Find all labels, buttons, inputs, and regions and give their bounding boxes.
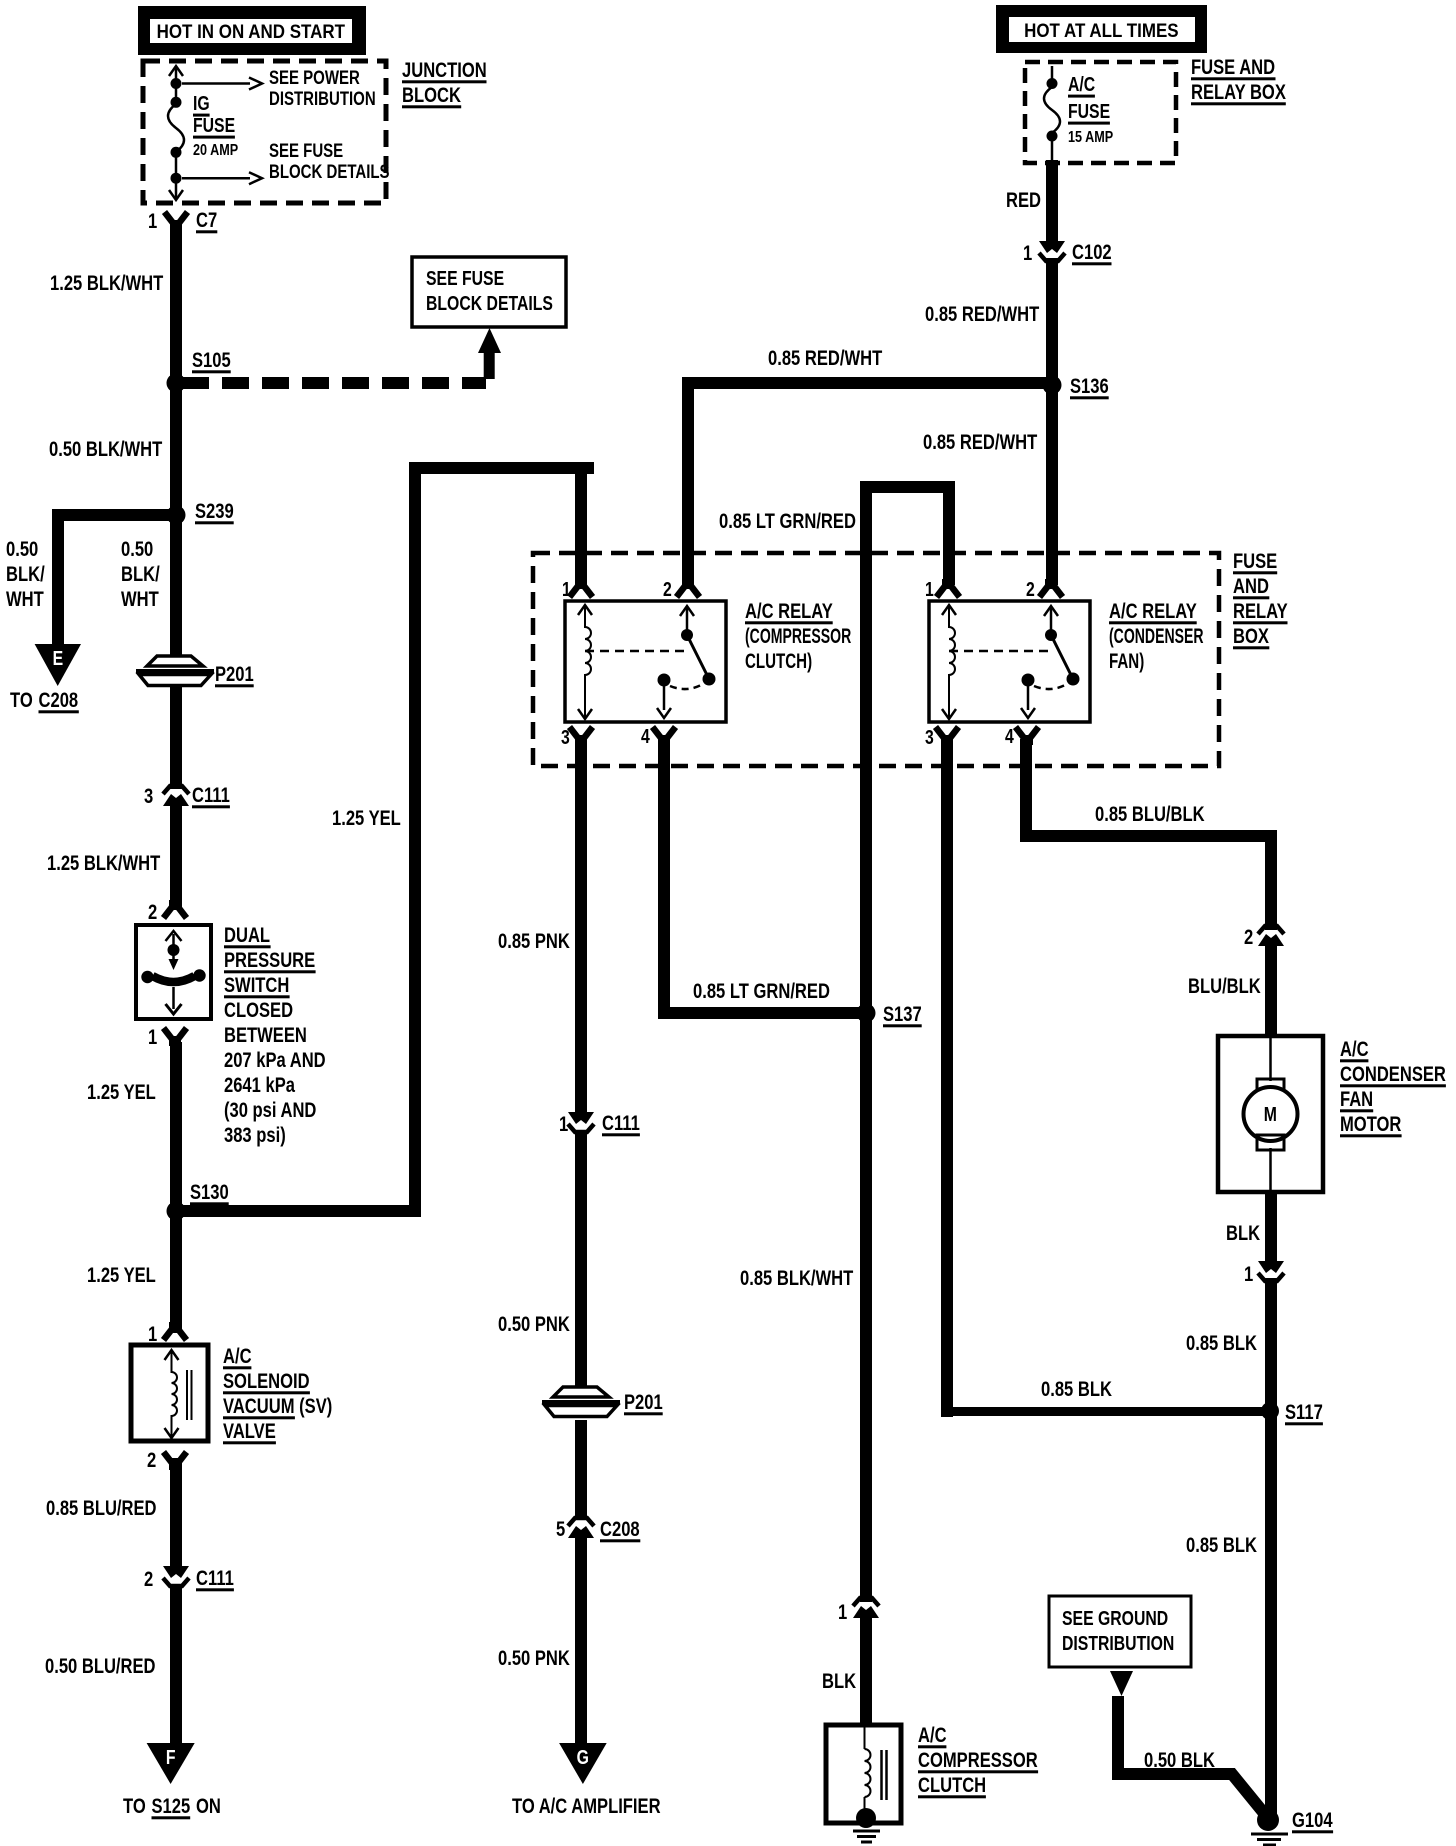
- label FUSE AND RELAY BOX right: [1233, 550, 1288, 649]
- svg-text:G: G: [577, 1746, 589, 1768]
- svg-text:BLK: BLK: [822, 1670, 856, 1693]
- pin 1 fork right relay: [937, 579, 960, 597]
- label C102: [1072, 241, 1112, 265]
- svg-text:S239: S239: [195, 500, 234, 523]
- svg-text:0.85 RED/WHT: 0.85 RED/WHT: [768, 347, 883, 370]
- svg-text:VACUUM (SV): VACUUM (SV): [223, 1395, 332, 1418]
- svg-text:2: 2: [663, 578, 672, 600]
- label 0.85 LT GRN/RED upper: [719, 510, 856, 533]
- arrow E to C208: [35, 644, 81, 686]
- label S105: [192, 349, 231, 373]
- svg-text:CLUTCH: CLUTCH: [918, 1774, 986, 1797]
- svg-text:SEE GROUND: SEE GROUND: [1062, 1607, 1168, 1629]
- label 0.85 BLU/RED: [46, 1497, 157, 1520]
- node junction dot 4: [171, 173, 182, 184]
- svg-text:S125: S125: [152, 1795, 191, 1818]
- label 1 at C111 middle: [559, 1113, 568, 1136]
- svg-text:1: 1: [562, 578, 571, 600]
- svg-text:PRESSURE: PRESSURE: [224, 949, 315, 972]
- ground symbol G104: [1251, 1834, 1288, 1845]
- svg-text:(30 psi AND: (30 psi AND: [224, 1099, 316, 1122]
- svg-text:C111: C111: [602, 1112, 640, 1135]
- junction block bus wire: [175, 66, 178, 200]
- label 0.50 BLU/RED: [45, 1655, 156, 1678]
- label C111 middle: [602, 1112, 640, 1136]
- wire dashed from S105: [182, 377, 486, 389]
- pin 2 fork of solenoid valve: [164, 1452, 187, 1470]
- label S137: [883, 1003, 922, 1027]
- motor M1 A/C condenser fan: [1218, 1036, 1323, 1192]
- node fuse dot bottom: [1047, 131, 1058, 142]
- label C111 lower: [196, 1567, 234, 1591]
- label S239: [195, 500, 234, 524]
- label 1.25 BLK/WHT lower: [47, 852, 161, 875]
- label C7: [196, 209, 217, 233]
- svg-text:1: 1: [148, 210, 157, 233]
- svg-text:DISTRIBUTION: DISTRIBUTION: [269, 88, 376, 109]
- label pins left relay: [561, 578, 672, 748]
- pin 1 fork left relay: [570, 579, 593, 597]
- label 0.85 BLK above S117: [1186, 1332, 1257, 1355]
- svg-text:(COMPRESSOR: (COMPRESSOR: [745, 624, 851, 647]
- svg-text:BLK/: BLK/: [6, 563, 45, 586]
- svg-text:0.85 LT GRN/RED: 0.85 LT GRN/RED: [719, 510, 856, 533]
- clutch coil: [865, 1727, 871, 1812]
- label 1.25 YEL lower: [87, 1264, 156, 1287]
- svg-text:WHT: WHT: [121, 588, 159, 611]
- svg-text:M: M: [1264, 1103, 1277, 1125]
- wire 0.50 PNK upper: [575, 1133, 587, 1388]
- label 1.25 YEL: [87, 1081, 156, 1104]
- svg-text:1: 1: [148, 1026, 157, 1049]
- arrow to SEE POWER DISTRIBUTION: [182, 78, 262, 90]
- A/C compressor clutch box: [826, 1725, 901, 1823]
- svg-text:DUAL: DUAL: [224, 924, 270, 947]
- grommet P201 middle: [542, 1387, 620, 1417]
- svg-text:BLOCK DETAILS: BLOCK DETAILS: [426, 292, 553, 314]
- svg-text:SEE FUSE: SEE FUSE: [269, 140, 343, 161]
- svg-text:COMPRESSOR: COMPRESSOR: [918, 1749, 1038, 1772]
- wire 0.85 LT GRN/RED vertical: [860, 481, 955, 1602]
- wire pin 4 left relay to S137: [658, 739, 872, 1019]
- wire 1.25 YEL vertical from S130: [176, 462, 421, 1217]
- svg-text:RED: RED: [1006, 189, 1041, 212]
- label 0.50 PNK: [498, 1313, 570, 1336]
- svg-text:BLK/: BLK/: [121, 563, 160, 586]
- label 0.85 PNK: [498, 930, 570, 953]
- label G104: [1292, 1809, 1333, 1833]
- junction block (dashed box): [143, 61, 386, 203]
- svg-text:0.50 PNK: 0.50 PNK: [498, 1313, 570, 1336]
- pin 2 fork of pressure switch: [164, 900, 187, 918]
- label SEE POWER DISTRIBUTION: [269, 67, 376, 109]
- label P201 middle: [624, 1391, 663, 1415]
- svg-text:E: E: [53, 647, 64, 669]
- connector C111 pin 2: [163, 1566, 189, 1586]
- label 5 at C208: [556, 1518, 565, 1541]
- svg-text:P201: P201: [624, 1391, 663, 1414]
- svg-text:F: F: [166, 1746, 176, 1768]
- label SEE FUSE BLOCK DETAILS: [269, 140, 390, 182]
- wire pin2 left relay to S136: [682, 377, 1058, 585]
- label 0.85 LT GRN/RED lower: [693, 980, 830, 1003]
- svg-text:(CONDENSER: (CONDENSER: [1109, 624, 1204, 647]
- svg-text:G104: G104: [1292, 1809, 1333, 1832]
- node junction dot 3: [171, 147, 182, 158]
- grommet P201 left: [136, 656, 214, 686]
- label IG FUSE: [193, 92, 235, 138]
- svg-text:S136: S136: [1070, 375, 1109, 398]
- wire 0.50 BLK: [1118, 1696, 1263, 1812]
- svg-text:S105: S105: [192, 349, 231, 372]
- label S130: [190, 1181, 229, 1205]
- label 0.85 BLU/BLK: [1095, 803, 1205, 826]
- pressure switch diaphragm: [141, 969, 205, 983]
- label TO S125 ON: [123, 1795, 221, 1819]
- label TO C208: [10, 689, 79, 713]
- svg-text:SOLENOID: SOLENOID: [223, 1370, 310, 1393]
- svg-text:1.25 YEL: 1.25 YEL: [87, 1264, 156, 1287]
- svg-text:4: 4: [641, 725, 650, 747]
- label A/C FUSE: [1068, 73, 1110, 124]
- svg-text:1.25 BLK/WHT: 1.25 BLK/WHT: [50, 272, 164, 295]
- svg-text:BLK: BLK: [1226, 1222, 1260, 1245]
- svg-text:3: 3: [144, 785, 153, 808]
- label 2 below solenoid valve: [147, 1449, 156, 1472]
- wire BLU/BLK: [1265, 941, 1277, 1036]
- A/C fuse box (dashed): [1025, 62, 1176, 163]
- pin 2 fork right relay: [1040, 579, 1063, 597]
- svg-text:A/C RELAY: A/C RELAY: [1109, 600, 1197, 623]
- svg-text:RELAY: RELAY: [1233, 600, 1288, 623]
- label 0.50 BLK: [1144, 1749, 1215, 1772]
- label 0.50 PNK lower: [498, 1647, 570, 1670]
- label RED: [1006, 189, 1041, 212]
- A/C fuse wire: [1051, 66, 1054, 163]
- wire RED: [1046, 160, 1058, 246]
- label 0.50 BLK/WHT: [49, 438, 163, 461]
- label 0.50 BLK/WHT right split: [121, 538, 160, 611]
- svg-text:FUSE: FUSE: [1068, 100, 1110, 122]
- label A/C RELAY COMPRESSOR CLUTCH: [745, 600, 851, 672]
- svg-text:WHT: WHT: [6, 588, 44, 611]
- label JUNCTION BLOCK: [402, 59, 487, 108]
- clutch core: [882, 1750, 887, 1800]
- box SEE GROUND DISTRIBUTION: [1049, 1596, 1191, 1667]
- svg-text:JUNCTION: JUNCTION: [402, 59, 487, 82]
- wire S239 branch left: [52, 509, 176, 646]
- svg-text:BLOCK: BLOCK: [402, 84, 461, 107]
- label 2 at pressure switch: [148, 901, 157, 924]
- banner HOT AT ALL TIMES: [996, 5, 1207, 53]
- svg-text:207 kPa AND: 207 kPa AND: [224, 1049, 326, 1072]
- wire below P201 left: [170, 687, 182, 789]
- svg-text:1: 1: [559, 1113, 568, 1136]
- svg-text:1.25 YEL: 1.25 YEL: [87, 1081, 156, 1104]
- wire 0.85 BLU/RED: [170, 1458, 182, 1572]
- ground symbol at clutch: [853, 1831, 880, 1842]
- svg-text:0.85 BLK/WHT: 0.85 BLK/WHT: [740, 1267, 854, 1290]
- svg-text:C208: C208: [600, 1518, 640, 1541]
- junction block bottom arrow: [169, 190, 183, 200]
- svg-text:C111: C111: [196, 1567, 234, 1590]
- node S105: [167, 374, 186, 393]
- label 0.50 BLK/WHT left split: [6, 538, 45, 611]
- label BLK at clutch: [822, 1670, 856, 1693]
- wire 0.85 PNK: [575, 739, 587, 1119]
- svg-text:2: 2: [1026, 578, 1035, 600]
- wire 0.85 BLU/BLK: [1020, 739, 1277, 930]
- svg-text:2: 2: [147, 1449, 156, 1472]
- svg-text:2: 2: [1244, 926, 1253, 949]
- connector C208: [568, 1518, 594, 1538]
- dual pressure switch box: [136, 925, 211, 1019]
- connector 1 below motor: [1258, 1261, 1284, 1281]
- banner HOT IN ON AND START: [138, 6, 366, 55]
- junction block top arrow: [169, 66, 183, 76]
- ground G104 dot: [1257, 1809, 1279, 1831]
- label 1 below motor: [1244, 1263, 1253, 1286]
- label S136: [1070, 375, 1109, 399]
- svg-text:CLOSED: CLOSED: [224, 999, 293, 1022]
- label A/C COMPRESSOR CLUTCH: [918, 1724, 1038, 1798]
- arrow to SEE FUSE BLOCK DETAILS: [182, 172, 262, 184]
- svg-text:DISTRIBUTION: DISTRIBUTION: [1062, 1632, 1174, 1654]
- wire 0.50 BLU/RED: [170, 1586, 182, 1746]
- pin 1 fork of solenoid valve: [164, 1322, 187, 1340]
- node fuse dot top: [1047, 78, 1058, 89]
- pressure switch contact dot: [168, 944, 180, 956]
- svg-text:0.85 BLU/BLK: 0.85 BLU/BLK: [1095, 803, 1205, 826]
- label 0.85 RED/WHT middle: [768, 347, 883, 370]
- svg-text:TO A/C AMPLIFIER: TO A/C AMPLIFIER: [512, 1795, 661, 1818]
- svg-text:0.85 PNK: 0.85 PNK: [498, 930, 570, 953]
- arrow up to fuse details box: [478, 328, 501, 379]
- svg-text:1: 1: [838, 1601, 847, 1624]
- label 1 at C7: [148, 210, 157, 233]
- svg-text:TO: TO: [123, 1795, 146, 1818]
- node junction dot 1: [171, 78, 182, 89]
- label 20 AMP: [193, 142, 238, 160]
- svg-text:CLUTCH): CLUTCH): [745, 648, 812, 672]
- label C208: [600, 1518, 640, 1542]
- label 2 at fan motor: [1244, 926, 1253, 949]
- wire 1.25 BLK/WHT to pressure switch: [170, 805, 182, 908]
- wire 1.25 YEL upper: [170, 1042, 182, 1333]
- svg-text:A/C: A/C: [1340, 1038, 1369, 1061]
- label FUSE AND RELAY BOX top: [1191, 56, 1286, 105]
- svg-text:HOT IN ON AND START: HOT IN ON AND START: [157, 20, 345, 42]
- fuse and relay box (dashed): [533, 553, 1219, 766]
- label 1.25 BLK/WHT: [50, 272, 164, 295]
- wire 1.25 BLK/WHT from C7: [170, 222, 182, 657]
- node S130: [167, 1202, 186, 1221]
- label 0.85 BLK/WHT: [740, 1267, 854, 1290]
- svg-text:0.50: 0.50: [121, 538, 153, 561]
- pin 1 fork of pressure switch: [164, 1028, 187, 1046]
- pin 3 fork left relay: [570, 727, 593, 745]
- fuse A/C FUSE element: [1044, 87, 1060, 133]
- label 0.85 BLK at S117 left: [1041, 1378, 1112, 1401]
- box SEE FUSE BLOCK DETAILS: [412, 257, 566, 327]
- label pins right relay: [925, 578, 1035, 748]
- wire 0.50 PNK lower: [575, 1535, 587, 1746]
- label 3 at C111: [144, 785, 153, 808]
- svg-text:A/C: A/C: [918, 1724, 947, 1747]
- svg-text:A/C RELAY: A/C RELAY: [745, 600, 833, 623]
- label BLK below motor: [1226, 1222, 1260, 1245]
- svg-text:BOX: BOX: [1233, 625, 1269, 648]
- wire 0.85 RED/WHT right upper: [1046, 258, 1058, 585]
- svg-text:20 AMP: 20 AMP: [193, 142, 238, 160]
- svg-text:1: 1: [1244, 1263, 1253, 1286]
- svg-text:FAN): FAN): [1109, 648, 1144, 672]
- node junction dot 2: [171, 97, 182, 108]
- label A/C SOLENOID VACUUM VALVE: [223, 1345, 332, 1444]
- relay U1 A/C relay compressor clutch: [565, 601, 726, 722]
- svg-text:SEE FUSE: SEE FUSE: [426, 267, 504, 289]
- svg-text:VALVE: VALVE: [223, 1420, 276, 1443]
- wire 0.85 BLK to S117: [1265, 1278, 1277, 1826]
- svg-text:0.50 BLU/RED: 0.50 BLU/RED: [45, 1655, 156, 1678]
- svg-text:C208: C208: [39, 689, 79, 712]
- svg-text:3: 3: [561, 726, 570, 748]
- label 0.85 RED/WHT right upper: [925, 303, 1040, 326]
- label A/C CONDENSER FAN MOTOR: [1340, 1038, 1446, 1137]
- label S117: [1285, 1401, 1323, 1425]
- pressure switch contact arrow up: [166, 931, 182, 948]
- svg-text:BETWEEN: BETWEEN: [224, 1024, 307, 1047]
- connector C102: [1039, 241, 1065, 261]
- label C111: [192, 784, 230, 808]
- svg-text:3: 3: [925, 726, 934, 748]
- label 0.85 BLK below S117: [1186, 1534, 1257, 1557]
- svg-text:1: 1: [1023, 242, 1032, 265]
- svg-text:0.85 BLK: 0.85 BLK: [1186, 1332, 1257, 1355]
- svg-text:2641 kPa: 2641 kPa: [224, 1074, 295, 1097]
- solenoid valve coil: [165, 1350, 179, 1438]
- pin 3 fork right relay: [936, 727, 959, 745]
- node S117: [1261, 1402, 1279, 1420]
- svg-text:1: 1: [925, 578, 934, 600]
- svg-text:SEE POWER: SEE POWER: [269, 67, 360, 88]
- connector C7: [165, 212, 188, 230]
- A/C solenoid vacuum valve box: [131, 1345, 208, 1441]
- arrow G to A/C amplifier: [559, 1743, 607, 1784]
- label 1 at solenoid valve: [148, 1323, 157, 1346]
- connector C111 pin 1 middle: [568, 1112, 594, 1132]
- fuse IG FUSE element: [168, 104, 184, 152]
- svg-text:1.25 BLK/WHT: 1.25 BLK/WHT: [47, 852, 161, 875]
- wire BLK below motor: [1265, 1192, 1277, 1266]
- svg-text:FAN: FAN: [1340, 1088, 1373, 1111]
- svg-text:S130: S130: [190, 1181, 229, 1204]
- svg-text:0.85 RED/WHT: 0.85 RED/WHT: [923, 431, 1038, 454]
- svg-text:C102: C102: [1072, 241, 1112, 264]
- svg-text:0.85 BLK: 0.85 BLK: [1186, 1534, 1257, 1557]
- svg-text:BLOCK DETAILS: BLOCK DETAILS: [269, 161, 390, 182]
- svg-text:0.50 PNK: 0.50 PNK: [498, 1647, 570, 1670]
- label 1 at C102: [1023, 242, 1032, 265]
- label 15 AMP: [1068, 129, 1113, 147]
- label 2 at C111 lower: [144, 1568, 153, 1591]
- svg-text:BLU/BLK: BLU/BLK: [1188, 975, 1261, 998]
- connector C111 pin 3: [163, 786, 189, 806]
- svg-text:P201: P201: [215, 663, 254, 686]
- svg-text:C111: C111: [192, 784, 230, 807]
- pin 4 fork left relay: [653, 727, 676, 745]
- svg-text:ON: ON: [196, 1795, 221, 1818]
- svg-text:C7: C7: [196, 209, 217, 232]
- svg-text:0.50 BLK/WHT: 0.50 BLK/WHT: [49, 438, 163, 461]
- wire to C208: [575, 1420, 587, 1519]
- svg-text:A/C: A/C: [223, 1345, 252, 1368]
- svg-text:RELAY BOX: RELAY BOX: [1191, 81, 1286, 104]
- svg-text:FUSE: FUSE: [1233, 550, 1277, 573]
- svg-text:AND: AND: [1233, 575, 1269, 598]
- arrow F to S125: [147, 1743, 195, 1784]
- svg-text:CONDENSER: CONDENSER: [1340, 1063, 1446, 1086]
- svg-text:HOT AT ALL TIMES: HOT AT ALL TIMES: [1024, 19, 1178, 41]
- svg-text:2: 2: [144, 1568, 153, 1591]
- svg-text:0.85 LT GRN/RED: 0.85 LT GRN/RED: [693, 980, 830, 1003]
- wire BLK to clutch: [860, 1614, 872, 1727]
- svg-text:383 psi): 383 psi): [224, 1124, 286, 1147]
- label 1 at compressor clutch: [838, 1601, 847, 1624]
- svg-text:IG: IG: [193, 92, 210, 114]
- label DUAL PRESSURE SWITCH: [224, 924, 326, 1147]
- svg-text:FUSE AND: FUSE AND: [1191, 56, 1275, 79]
- svg-text:A/C: A/C: [1068, 73, 1095, 95]
- connector 2 at fan motor: [1258, 926, 1284, 946]
- label 1 below pressure switch: [148, 1026, 157, 1049]
- svg-text:1.25 YEL: 1.25 YEL: [332, 807, 401, 830]
- label TO A/C AMPLIFIER: [512, 1795, 661, 1818]
- node S239: [167, 506, 186, 525]
- svg-text:0.50 BLK: 0.50 BLK: [1144, 1749, 1215, 1772]
- label BLU/BLK: [1188, 975, 1261, 998]
- svg-text:MOTOR: MOTOR: [1340, 1113, 1402, 1136]
- pressure switch lower arrow: [166, 987, 182, 1014]
- label 0.85 RED/WHT right lower: [923, 431, 1038, 454]
- svg-text:S137: S137: [883, 1003, 922, 1026]
- svg-text:4: 4: [1005, 725, 1014, 747]
- svg-text:FUSE: FUSE: [193, 114, 235, 136]
- svg-text:TO: TO: [10, 689, 33, 712]
- svg-text:0.85 BLK: 0.85 BLK: [1041, 1378, 1112, 1401]
- label A/C RELAY CONDENSER FAN: [1109, 600, 1204, 672]
- relay U2 A/C relay condenser fan: [929, 601, 1090, 722]
- connector 1 at compressor clutch: [853, 1598, 879, 1618]
- wire top horizontal to relay pin 1: [409, 462, 594, 585]
- svg-text:0.85 BLU/RED: 0.85 BLU/RED: [46, 1497, 157, 1520]
- svg-text:0.85 RED/WHT: 0.85 RED/WHT: [925, 303, 1040, 326]
- pressure switch stem: [169, 950, 179, 970]
- svg-text:0.50: 0.50: [6, 538, 38, 561]
- svg-text:5: 5: [556, 1518, 565, 1541]
- wire pin 3 right relay to S117: [941, 739, 1276, 1417]
- arrow from ground distribution: [1110, 1671, 1133, 1696]
- svg-text:S117: S117: [1285, 1401, 1323, 1424]
- label 1.25 YEL middle: [332, 807, 401, 830]
- svg-text:SWITCH: SWITCH: [224, 974, 289, 997]
- pin 4 fork right relay: [1016, 727, 1039, 745]
- svg-text:2: 2: [148, 901, 157, 924]
- label P201 left: [215, 663, 254, 687]
- clutch ground dot: [856, 1808, 876, 1828]
- node S137: [857, 1004, 876, 1023]
- svg-text:15 AMP: 15 AMP: [1068, 129, 1113, 147]
